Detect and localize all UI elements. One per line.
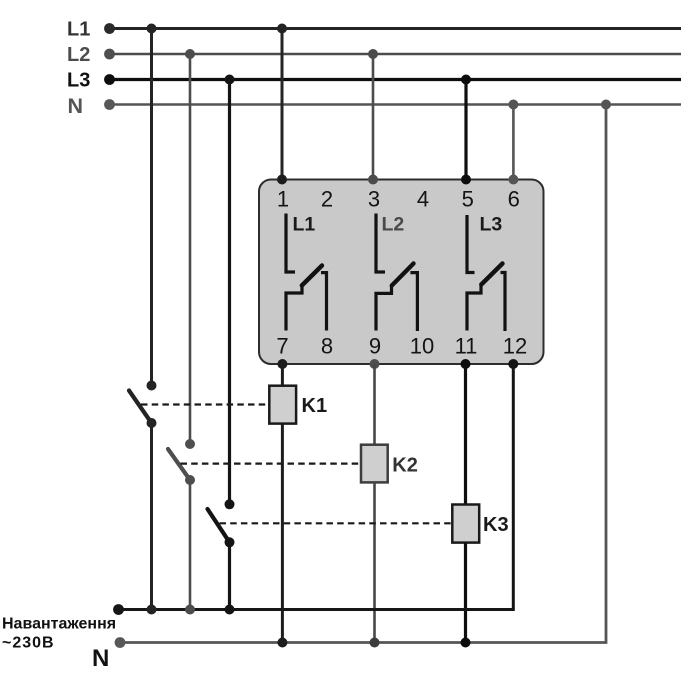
internal contact C step (pin 11) — [467, 285, 481, 331]
svg-text:8: 8 — [321, 334, 333, 359]
bus L2 — [110, 53, 681, 56]
node pin 5 — [461, 175, 471, 185]
svg-text:12: 12 — [503, 334, 527, 359]
internal contact B moving arm — [392, 264, 414, 286]
relay device box U1 — [259, 180, 544, 365]
svg-text:7: 7 — [276, 334, 288, 359]
svg-text:L1: L1 — [67, 19, 90, 41]
wire L3 to switch S3 — [228, 80, 231, 505]
internal contact A moving arm — [302, 266, 322, 286]
mechanical link K1 — [141, 403, 269, 405]
node pin 3 — [368, 175, 378, 185]
junction S3/load bus — [225, 605, 235, 615]
node pin 1 — [277, 175, 287, 185]
junction L3/pin5 — [461, 75, 471, 85]
wire N to pin 6 — [512, 105, 515, 180]
svg-text:4: 4 — [417, 187, 429, 212]
svg-text:K2: K2 — [392, 455, 418, 477]
svg-text:2: 2 — [321, 187, 333, 212]
terminal dot load bus left end — [113, 604, 124, 615]
internal contact C output line (pin 12) — [501, 273, 506, 332]
junction L1/S1 — [147, 24, 157, 34]
junction N/right drop — [601, 100, 611, 110]
internal contact C moving arm — [481, 264, 502, 285]
svg-text:5: 5 — [462, 187, 474, 212]
internal contact B step (pin 9) — [376, 285, 392, 331]
relay coil K2 — [361, 445, 388, 483]
wire N to bottom neutral bus — [120, 105, 606, 643]
bus L3 — [110, 78, 681, 81]
wire coil K2 to neutral bus — [373, 482, 376, 642]
contact K1.1 blade — [129, 391, 152, 424]
svg-text:L3: L3 — [480, 214, 503, 236]
junction K3/neutral bus — [461, 638, 471, 648]
node pin 12 — [508, 359, 518, 369]
internal contact C input line (pin 5) — [467, 215, 475, 273]
svg-text:L2: L2 — [382, 214, 405, 236]
junction K2/neutral bus — [370, 638, 380, 648]
wire L1 to pin 1 — [281, 29, 284, 180]
relay coil K3 — [452, 505, 479, 543]
svg-text:1: 1 — [277, 187, 289, 212]
relay coil K1 — [269, 386, 296, 424]
internal contact A step (pin 7) — [286, 285, 302, 331]
svg-text:L2: L2 — [67, 44, 90, 66]
contact K1.1 lower terminal — [147, 418, 157, 428]
contact K2.1 blade — [168, 449, 190, 480]
wire pin 12 to load bus and load bus — [119, 364, 514, 610]
node pin 11 — [461, 359, 471, 369]
wire pin 11 to coil K3 — [464, 364, 467, 505]
contact K3.1 lower terminal — [225, 537, 235, 547]
terminal dot neutral bus left end — [115, 637, 126, 648]
junction K1/neutral bus — [277, 638, 287, 648]
svg-text:N: N — [92, 645, 109, 672]
wire pin 9 to coil K2 — [373, 364, 376, 445]
svg-text:6: 6 — [508, 187, 520, 212]
junction S2/load bus — [185, 605, 195, 615]
junction L2/S2 — [185, 49, 195, 59]
junction L2/pin3 — [368, 49, 378, 59]
svg-text:9: 9 — [369, 334, 381, 359]
svg-text:3: 3 — [368, 187, 380, 212]
svg-text:~230В: ~230В — [2, 635, 55, 652]
bus N — [110, 103, 681, 106]
wire S1 to load bus — [150, 423, 153, 610]
node pin 9 — [370, 359, 380, 369]
terminal dot N — [104, 99, 115, 110]
junction N/pin6 — [508, 100, 518, 110]
terminal dot L1 — [104, 23, 115, 34]
terminal dot L3 — [104, 74, 115, 85]
svg-text:Навантаження: Навантаження — [2, 616, 116, 633]
wire L3 to pin 5 — [464, 80, 467, 180]
wire coil K1 to neutral bus — [281, 424, 284, 643]
svg-text:N: N — [68, 94, 84, 118]
svg-text:L1: L1 — [293, 214, 316, 236]
bus L1 — [110, 27, 681, 30]
wire S2 to load bus — [189, 480, 192, 610]
svg-text:K3: K3 — [483, 514, 509, 536]
contact K3.1 blade — [208, 509, 230, 542]
wire L1 to switch S1 — [150, 29, 153, 386]
svg-text:10: 10 — [410, 334, 434, 359]
internal contact A input line (pin 1) — [286, 214, 295, 273]
contact K1.1 upper terminal — [147, 381, 157, 391]
wire coil K3 to neutral bus — [464, 543, 467, 643]
junction S1/load bus — [147, 605, 157, 615]
terminal dot L2 — [104, 49, 115, 60]
svg-text:K1: K1 — [302, 395, 328, 417]
wire pin 7 to coil K1 — [281, 364, 284, 386]
wire L2 to pin 3 — [372, 54, 375, 180]
internal contact B output line (pin 10) — [410, 273, 417, 331]
internal contact A output line (pin 8) — [321, 273, 327, 331]
junction L3/S3 — [225, 75, 235, 85]
svg-text:11: 11 — [455, 334, 478, 359]
wire S3 to load bus — [228, 542, 231, 609]
node pin 7 — [277, 359, 287, 369]
wire L2 to switch S2 — [189, 54, 192, 444]
node pin 6 — [508, 175, 518, 185]
junction L1/pin1 — [277, 24, 287, 34]
contact K2.1 lower terminal — [185, 475, 195, 485]
contact K3.1 upper terminal — [225, 499, 235, 509]
mechanical link K2 — [181, 463, 362, 465]
contact K2.1 upper terminal — [185, 439, 195, 449]
svg-text:L3: L3 — [67, 70, 90, 92]
mechanical link K3 — [220, 522, 453, 524]
internal contact B input line (pin 3) — [376, 214, 385, 273]
